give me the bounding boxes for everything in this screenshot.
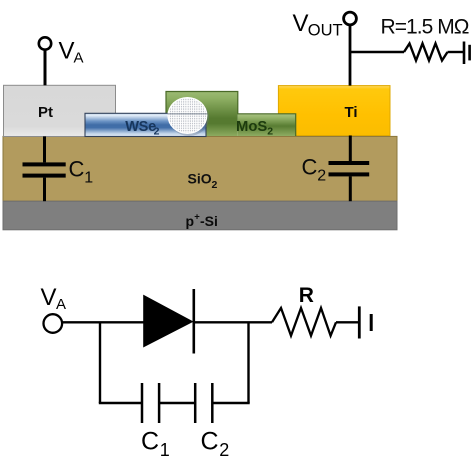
wire bottom branch left segment bbox=[99, 402, 142, 404]
layer p+-Si bbox=[3, 201, 397, 230]
label WSe2 bbox=[125, 119, 159, 138]
label Ti bbox=[345, 104, 358, 121]
semiconductor WSe2 bar bbox=[85, 113, 206, 136]
terminal VA (circuit) bbox=[44, 314, 63, 333]
wire VA to Pt bbox=[44, 50, 47, 85]
svg-text:R: R bbox=[299, 284, 314, 307]
label SiO2 bbox=[188, 171, 218, 192]
capacitor C1 (circuit) plates bbox=[142, 383, 159, 423]
svg-text:WSe: WSe bbox=[125, 119, 156, 135]
terminal VOUT bbox=[344, 12, 357, 25]
svg-text:1: 1 bbox=[160, 440, 170, 460]
capacitor C2 (circuit) plates bbox=[195, 383, 212, 423]
wire Pt to C1 top plate bbox=[43, 136, 46, 162]
label C1 (circuit) bbox=[141, 427, 170, 460]
resistor R (circuit) bbox=[272, 308, 336, 336]
svg-text:2: 2 bbox=[219, 440, 229, 460]
wire resistor to ground (circuit) bbox=[336, 321, 359, 323]
label R=1.5 MOhm bbox=[381, 16, 469, 39]
svg-text:V: V bbox=[41, 284, 57, 311]
label R (circuit) bbox=[299, 284, 314, 307]
svg-text:C: C bbox=[302, 155, 318, 180]
svg-text:A: A bbox=[56, 296, 66, 313]
svg-text:OUT: OUT bbox=[308, 21, 343, 39]
svg-text:A: A bbox=[74, 50, 84, 67]
wire VOUT to Ti bbox=[349, 25, 352, 85]
label C1 (device) bbox=[69, 157, 94, 187]
capacitor C2 (device) bbox=[329, 161, 370, 176]
label MoS2 bbox=[236, 119, 273, 138]
junction overlap ellipse (dotted) bbox=[167, 97, 209, 136]
svg-text:p: p bbox=[186, 213, 195, 229]
ground (top) bbox=[464, 42, 470, 65]
label Pt bbox=[38, 104, 53, 121]
svg-text:Pt: Pt bbox=[38, 104, 53, 121]
svg-text:1: 1 bbox=[84, 170, 93, 187]
svg-text:C: C bbox=[201, 427, 219, 455]
diode D1 cathode bar bbox=[193, 289, 196, 354]
wire bottom branch right segment bbox=[212, 402, 249, 404]
label C2 (circuit) bbox=[201, 427, 230, 460]
terminal VA (top) bbox=[39, 37, 51, 49]
wire Ti to C2 top plate bbox=[349, 136, 352, 162]
wire right branch down bbox=[247, 322, 249, 403]
label VA (top) bbox=[59, 37, 84, 66]
label p+-Si bbox=[186, 212, 218, 230]
svg-text:2: 2 bbox=[267, 126, 273, 138]
layer SiO2 bbox=[3, 136, 397, 201]
svg-text:V: V bbox=[59, 37, 75, 64]
electrode Pt bbox=[4, 85, 116, 136]
svg-text:C: C bbox=[141, 427, 159, 455]
svg-text:V: V bbox=[293, 10, 309, 37]
svg-text:C: C bbox=[69, 157, 85, 182]
semiconductor MoS2 lower block bbox=[166, 92, 296, 137]
wire C2 bottom plate to p+-Si bbox=[349, 176, 352, 201]
diode D1 triangle bbox=[144, 295, 193, 346]
wire VA to diode anode bbox=[62, 321, 144, 323]
svg-text:2: 2 bbox=[317, 168, 326, 185]
label VA (circuit) bbox=[41, 284, 67, 313]
svg-text:MoS: MoS bbox=[236, 119, 267, 135]
wire C1 bottom plate to p+-Si bbox=[43, 178, 46, 202]
label VOUT bbox=[293, 10, 343, 39]
wire VOUT node to resistor R bbox=[350, 51, 404, 53]
svg-text:R=1.5 MΩ: R=1.5 MΩ bbox=[381, 16, 469, 39]
svg-text:2: 2 bbox=[212, 179, 218, 191]
wire between C1 and C2 bbox=[159, 402, 195, 404]
semiconductor MoS2 tall block bbox=[166, 92, 238, 137]
capacitor C1 (device) bbox=[23, 162, 66, 177]
electrode Ti bbox=[278, 86, 390, 136]
svg-text:-Si: -Si bbox=[200, 213, 218, 229]
wire left branch down bbox=[99, 322, 101, 403]
svg-text:2: 2 bbox=[154, 126, 160, 138]
svg-text:SiO: SiO bbox=[188, 171, 212, 187]
wire resistor to ground (top) bbox=[448, 51, 464, 53]
label C2 (device) bbox=[302, 155, 327, 185]
wire diode to resistor bbox=[194, 321, 272, 323]
ground (circuit) bbox=[359, 306, 371, 338]
resistor R (top) bbox=[404, 44, 448, 61]
svg-text:Ti: Ti bbox=[345, 104, 358, 121]
